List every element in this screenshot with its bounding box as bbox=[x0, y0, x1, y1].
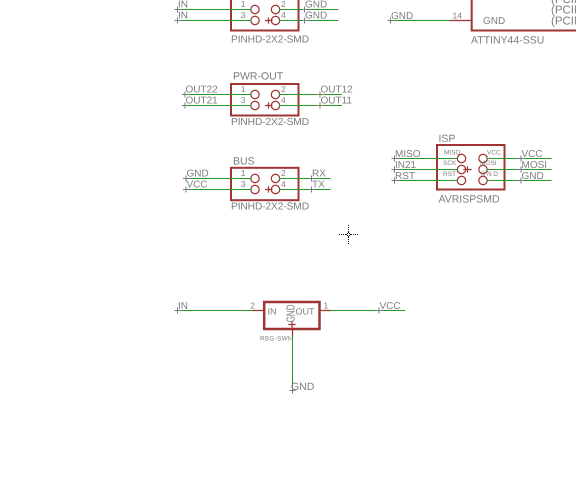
regulator U2 REG-SW bbox=[250, 301, 331, 343]
wire net GND row1 (right of J1) bbox=[280, 9, 338, 11]
svg-text:VCC: VCC bbox=[187, 180, 208, 191]
svg-text:MISO: MISO bbox=[444, 150, 461, 157]
svg-text:IN: IN bbox=[178, 301, 188, 312]
svg-text:GND: GND bbox=[481, 171, 500, 178]
label RX bbox=[309, 169, 326, 182]
wire net GND (ISP) bbox=[487, 180, 551, 182]
svg-text:GND: GND bbox=[291, 381, 315, 393]
wire net RX bbox=[280, 178, 330, 180]
pin circle 1 bbox=[251, 90, 259, 98]
label VCC (ISP) bbox=[519, 149, 543, 161]
pin circle 1 bbox=[251, 174, 259, 182]
origin cross bbox=[266, 103, 273, 108]
pin circle 4 bbox=[271, 16, 279, 24]
cursor crosshair bbox=[339, 225, 358, 244]
label GND (BUS) bbox=[184, 169, 209, 182]
label MISO bbox=[392, 149, 421, 161]
svg-text:OUT21: OUT21 bbox=[186, 96, 219, 107]
svg-text:1: 1 bbox=[241, 84, 246, 94]
svg-text:RST: RST bbox=[395, 171, 415, 182]
svg-text:VCC: VCC bbox=[522, 149, 543, 160]
svg-text:PINHD-2X2-SMD: PINHD-2X2-SMD bbox=[231, 202, 309, 213]
pin circle 3 bbox=[251, 16, 259, 24]
wire net IN row1 bbox=[177, 9, 251, 11]
svg-text:VCC: VCC bbox=[487, 150, 501, 157]
wire net IN21 bbox=[395, 169, 458, 171]
svg-text:OUT12: OUT12 bbox=[321, 85, 354, 96]
svg-text:ATTINY44-SSU: ATTINY44-SSU bbox=[471, 35, 544, 47]
svg-text:2: 2 bbox=[281, 0, 286, 9]
svg-text:PWR-OUT: PWR-OUT bbox=[233, 71, 284, 83]
label TX bbox=[309, 180, 325, 193]
wire net GND row2 (right of J1) bbox=[280, 20, 338, 22]
label OUT21 bbox=[183, 96, 219, 109]
origin cross bbox=[266, 18, 273, 23]
svg-text:(PCIN: (PCIN bbox=[551, 16, 576, 28]
svg-text:RST: RST bbox=[443, 171, 456, 178]
svg-text:14: 14 bbox=[453, 11, 463, 21]
pin circle SCK bbox=[457, 165, 465, 173]
wire net OUT12 bbox=[280, 94, 342, 96]
wire net OUT22 bbox=[185, 94, 251, 96]
svg-text:3: 3 bbox=[241, 10, 246, 20]
pin circle GND bbox=[479, 176, 487, 184]
pin circle 4 bbox=[271, 185, 279, 193]
svg-text:2: 2 bbox=[281, 84, 286, 94]
label OUT11 bbox=[318, 96, 353, 109]
svg-text:2: 2 bbox=[281, 168, 286, 178]
wire net VCC (ISP) bbox=[487, 158, 551, 160]
svg-text:4: 4 bbox=[281, 179, 286, 189]
label OUT22 bbox=[183, 85, 219, 98]
pin circle 2 bbox=[271, 90, 279, 98]
wire net OUT11 bbox=[280, 105, 342, 107]
label VCC (BUS) bbox=[184, 180, 208, 193]
pin circle 3 bbox=[251, 185, 259, 193]
svg-text:GND: GND bbox=[483, 16, 505, 27]
label RST bbox=[392, 171, 415, 183]
svg-text:ISP: ISP bbox=[439, 133, 456, 145]
wire net GND (BUS row1) bbox=[186, 178, 251, 180]
wire net TX bbox=[280, 189, 330, 191]
svg-text:AVRISPSMD: AVRISPSMD bbox=[439, 194, 500, 206]
connector ISP AVRISPSMD bbox=[437, 133, 505, 206]
label GND row2 bbox=[302, 11, 327, 24]
pin circle MOSI bbox=[479, 165, 487, 173]
svg-text:VCC: VCC bbox=[380, 301, 401, 312]
wire net RST bbox=[395, 180, 458, 182]
label IN row2 bbox=[175, 11, 188, 24]
connector PWR-OUT PINHD-2X2-SMD bbox=[231, 71, 309, 129]
wire net VCC (regulator out) bbox=[331, 310, 405, 312]
pin circle 2 bbox=[271, 5, 279, 13]
pin circle 2 bbox=[271, 174, 279, 182]
svg-text:IN: IN bbox=[178, 0, 188, 11]
svg-text:GND: GND bbox=[391, 11, 413, 22]
svg-text:4: 4 bbox=[281, 95, 286, 105]
svg-text:SCK: SCK bbox=[443, 160, 457, 167]
connector BUS PINHD-2X2-SMD bbox=[231, 156, 309, 213]
svg-text:PINHD-2X2-SMD: PINHD-2X2-SMD bbox=[231, 35, 309, 46]
origin cross bbox=[464, 167, 471, 172]
wire net IN row2 bbox=[177, 20, 251, 22]
wire net GND (regulator down) bbox=[292, 337, 294, 391]
svg-text:3: 3 bbox=[241, 179, 246, 189]
svg-text:GND: GND bbox=[187, 169, 209, 180]
svg-text:GND: GND bbox=[284, 304, 297, 322]
label GND row1 bbox=[302, 0, 327, 12]
svg-text:2: 2 bbox=[250, 301, 255, 311]
wire net MISO bbox=[395, 158, 458, 160]
wire net GND (to pin 14) bbox=[391, 20, 451, 22]
label GND (ISP) bbox=[519, 171, 544, 183]
svg-text:1: 1 bbox=[324, 301, 329, 311]
pin circle 4 bbox=[271, 101, 279, 109]
label GND (regulator) bbox=[290, 381, 315, 393]
svg-text:OUT22: OUT22 bbox=[186, 85, 219, 96]
svg-text:MISO: MISO bbox=[395, 149, 421, 160]
pin 14 stub bbox=[450, 20, 471, 22]
svg-text:1: 1 bbox=[241, 168, 246, 178]
svg-text:BUS: BUS bbox=[233, 156, 255, 168]
label MOSI bbox=[519, 160, 548, 172]
svg-text:RBG-SWh: RBG-SWh bbox=[260, 336, 292, 343]
svg-text:GND: GND bbox=[522, 171, 544, 182]
svg-text:MOSI: MOSI bbox=[480, 160, 497, 167]
IC U1 ATTINY44-SSU (top-right, clipped) bbox=[450, 0, 576, 47]
svg-text:1: 1 bbox=[241, 0, 246, 9]
svg-text:RX: RX bbox=[312, 169, 326, 180]
svg-text:IN: IN bbox=[178, 11, 188, 22]
wire net VCC (BUS row2) bbox=[186, 189, 251, 191]
label OUT12 bbox=[318, 85, 354, 98]
svg-text:3: 3 bbox=[241, 95, 246, 105]
label IN (regulator) bbox=[175, 301, 188, 313]
origin cross bbox=[266, 187, 273, 192]
pin 3 stub (GND) bbox=[292, 330, 294, 337]
svg-text:OUT11: OUT11 bbox=[321, 96, 353, 107]
svg-text:MOSI: MOSI bbox=[522, 160, 548, 171]
svg-text:GND: GND bbox=[305, 11, 327, 22]
svg-text:IN21: IN21 bbox=[395, 160, 417, 171]
svg-text:OUT: OUT bbox=[296, 307, 316, 317]
wire net OUT21 bbox=[185, 105, 251, 107]
svg-text:GND: GND bbox=[305, 0, 327, 11]
label VCC (regulator out) bbox=[377, 301, 401, 313]
svg-text:4: 4 bbox=[281, 10, 286, 20]
pin 1 stub bbox=[321, 310, 332, 312]
pin circle RST bbox=[457, 176, 465, 184]
label IN row1 bbox=[175, 0, 188, 12]
pin circle MISO bbox=[457, 154, 465, 162]
svg-text:TX: TX bbox=[312, 180, 325, 191]
label IN21 bbox=[392, 160, 417, 172]
pin 2 stub bbox=[253, 310, 264, 312]
label GND (pin14 net) bbox=[388, 11, 413, 23]
pin circle 1 bbox=[251, 5, 259, 13]
wire net IN (regulator) bbox=[178, 310, 253, 312]
origin cross bbox=[289, 322, 295, 328]
pin circle 3 bbox=[251, 101, 259, 109]
pin circle VCC bbox=[479, 154, 487, 162]
svg-text:PINHD-2X2-SMD: PINHD-2X2-SMD bbox=[231, 117, 309, 128]
wire net MOSI bbox=[487, 169, 551, 171]
connector J1 PINHD-2X2-SMD (top-left) bbox=[231, 0, 309, 46]
svg-text:IN: IN bbox=[268, 307, 277, 317]
